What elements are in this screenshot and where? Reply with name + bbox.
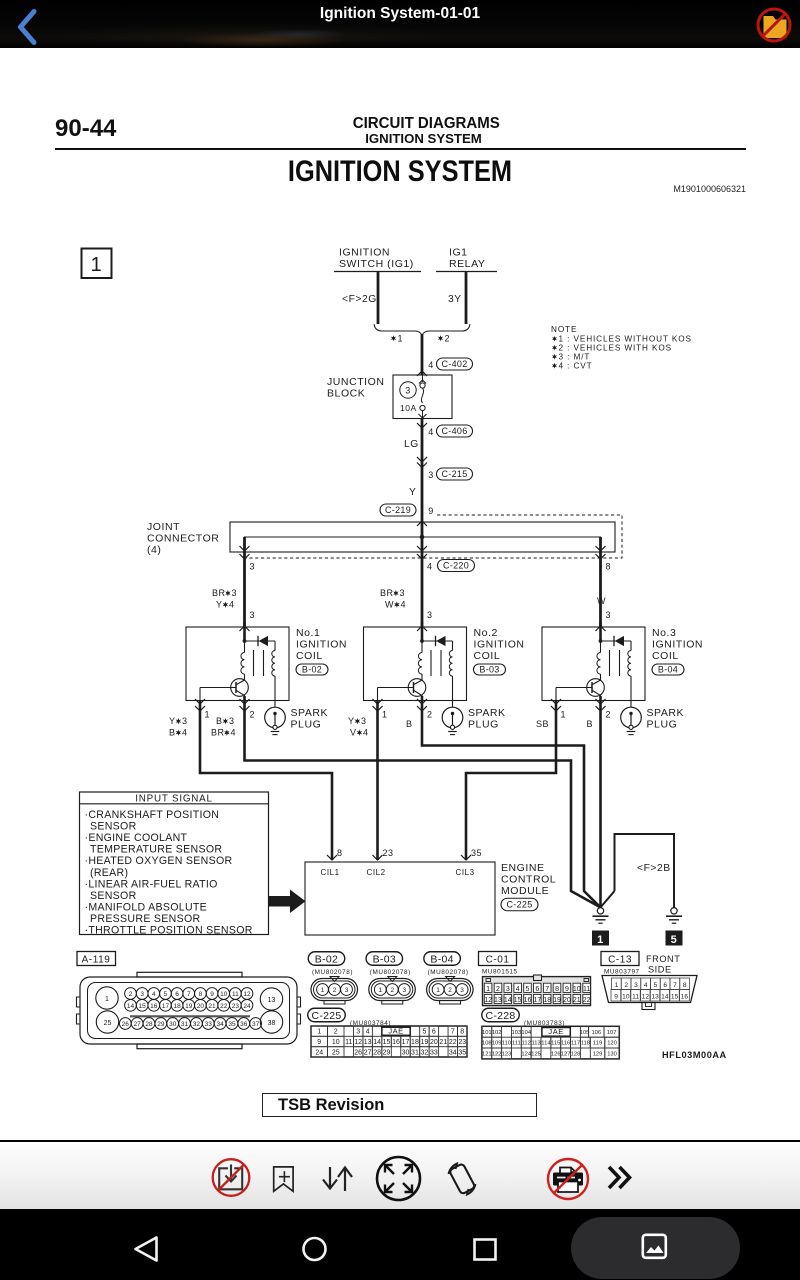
svg-text:32: 32 [193,1021,201,1028]
svg-text:1: 1 [91,254,103,276]
coil 2 pin 1 exit [373,699,383,704]
svg-text:109: 109 [492,1041,502,1047]
svg-text:126: 126 [551,1052,561,1058]
svg-text:·LINEAR AIR-FUEL RATIO: ·LINEAR AIR-FUEL RATIO [85,878,218,890]
TSB revision box [262,1093,537,1117]
diode coil 2 [422,640,453,642]
svg-text:3: 3 [361,716,367,726]
svg-text:(REAR): (REAR) [90,867,128,879]
svg-text:SPARK: SPARK [468,707,506,719]
wire coil2 pin1 to ECM pin 23 [376,700,379,860]
ECM pin 23 entry [373,855,383,860]
svg-text:3: 3 [402,987,406,994]
svg-text:4: 4 [229,600,235,610]
svg-text:4: 4 [427,562,433,572]
svg-text:Y: Y [216,600,223,610]
svg-text:3: 3 [140,991,144,998]
svg-text:31: 31 [411,1049,419,1056]
diagram number box 1 [82,249,112,279]
svg-text:4: 4 [231,728,237,738]
svg-text:12: 12 [642,994,650,1001]
svg-text:127: 127 [561,1052,571,1058]
svg-text:129: 129 [593,1052,603,1058]
svg-text:CIL2: CIL2 [367,868,386,877]
svg-text:B-02: B-02 [302,665,322,675]
page header [55,115,116,143]
svg-text:COIL: COIL [474,650,501,662]
svg-text:103: 103 [512,1030,522,1036]
svg-text:35: 35 [458,1049,466,1056]
wire continuation chevrons [417,457,427,462]
svg-text:22: 22 [449,1039,457,1046]
connector C-01 label [479,952,517,966]
svg-text:C-01: C-01 [486,955,510,966]
svg-text:2 : VEHICLES WITH KOS: 2 : VEHICLES WITH KOS [559,343,673,352]
svg-text:2: 2 [390,987,394,994]
svg-text:B-04: B-04 [430,953,453,965]
primary winding coil 2 [421,641,423,653]
arrow input signal to ECM [269,890,306,914]
ECM pin 8 entry [327,855,337,860]
svg-text:4: 4 [644,982,648,989]
svg-text:1: 1 [597,934,604,946]
svg-text:1 : VEHICLES WITHOUT KOS: 1 : VEHICLES WITHOUT KOS [559,334,692,343]
svg-text:1: 1 [317,1029,321,1036]
svg-text:·MANIFOLD ABSOLUTE: ·MANIFOLD ABSOLUTE [85,901,208,913]
svg-text:5: 5 [164,991,168,998]
svg-text:Y: Y [409,487,416,498]
ground point 5 [671,908,677,914]
svg-text:4: 4 [152,991,156,998]
svg-text:JAE: JAE [548,1027,563,1036]
svg-text:8: 8 [337,848,343,858]
svg-text:7: 7 [545,986,549,993]
svg-text:SENSOR: SENSOR [90,890,137,902]
svg-text:8: 8 [199,991,203,998]
svg-text:36: 36 [240,1021,248,1028]
wire coil3 pin1 to ECM pin 35 [466,700,556,860]
svg-text:10: 10 [332,1039,340,1046]
svg-text:28: 28 [373,1049,381,1056]
primary winding coil 3 [600,641,602,653]
svg-text:1: 1 [378,987,382,994]
svg-text:2: 2 [445,334,451,344]
svg-text:PLUG: PLUG [291,719,322,731]
svg-text:123: 123 [502,1052,512,1058]
svg-text:120: 120 [607,1041,617,1047]
svg-text:111: 111 [512,1041,521,1047]
svg-text:2: 2 [333,987,337,994]
svg-text:2: 2 [427,710,433,720]
toolbar scroll-direction icon [317,1160,355,1198]
svg-text:C-13: C-13 [608,955,632,966]
svg-text:105: 105 [580,1030,590,1036]
svg-text:18: 18 [411,1039,419,1046]
svg-text:31: 31 [181,1021,189,1028]
svg-text:4 : CVT: 4 : CVT [559,361,593,370]
toolbar no-print icon [546,1156,592,1202]
svg-text:4: 4 [182,728,188,738]
svg-text:14: 14 [127,1003,135,1010]
svg-text:114: 114 [541,1041,551,1047]
svg-text:IGNITION: IGNITION [652,639,703,651]
svg-text:COIL: COIL [296,650,323,662]
svg-text:IG1: IG1 [449,247,468,259]
engine control module box [305,862,495,935]
svg-text:9: 9 [317,1039,321,1046]
svg-text:9: 9 [614,994,618,1001]
toolbar bookmark-add icon [269,1162,301,1196]
svg-text:3: 3 [232,588,238,598]
input signal box [80,792,269,935]
svg-text:Y: Y [169,716,176,726]
svg-text:1: 1 [486,986,490,993]
svg-text:RELAY: RELAY [449,258,485,270]
svg-text:SB: SB [536,719,549,729]
A-119 cavity 13 [260,988,282,1010]
svg-text:2: 2 [448,987,452,994]
svg-text:20: 20 [563,997,571,1004]
app title [0,0,800,48]
bus exit wire pin 4 C-220 middle [421,521,424,627]
svg-text:BR: BR [211,728,225,738]
svg-text:15: 15 [671,994,679,1001]
svg-text:PRESSURE SENSOR: PRESSURE SENSOR [90,913,201,925]
svg-text:3: 3 [229,716,235,726]
connector B-02 label [308,952,345,966]
coil 1 pin 2 exit [240,699,250,704]
svg-text:ENGINE: ENGINE [501,862,545,874]
svg-text:B: B [587,719,594,729]
svg-text:SPARK: SPARK [647,707,685,719]
power transistor coil 3 [587,679,605,697]
svg-text:3: 3 [428,470,434,480]
svg-text:2: 2 [624,982,628,989]
svg-text:9: 9 [428,506,434,516]
svg-text:22: 22 [583,997,591,1004]
svg-text:C-402: C-402 [441,359,467,369]
svg-text:102: 102 [492,1030,502,1036]
svg-text:C-220: C-220 [443,561,469,571]
svg-text:4: 4 [366,1029,370,1036]
joint connector dashed outline [245,515,622,558]
svg-text:2: 2 [496,986,500,993]
svg-text:35: 35 [471,848,482,858]
secondary winding coil 3 [630,641,632,651]
svg-text:CIL1: CIL1 [321,868,340,877]
bus exit wire pin 8 right [599,537,602,627]
svg-text:119: 119 [593,1041,602,1047]
coil 1 internal wiring [243,622,246,641]
svg-text:10: 10 [220,991,228,998]
svg-text:16: 16 [150,1003,158,1010]
svg-text:107: 107 [607,1030,617,1036]
core coil 3 [609,650,611,676]
svg-text:INPUT SIGNAL: INPUT SIGNAL [135,794,212,805]
svg-text:W: W [597,596,606,606]
svg-text:112: 112 [522,1041,531,1047]
svg-text:1: 1 [382,710,388,720]
toolbar rotate icon [440,1158,484,1200]
svg-text:128: 128 [571,1052,581,1058]
connector C-228 pin table [482,1026,619,1059]
svg-text:(MU802078): (MU802078) [428,969,469,976]
svg-text:4: 4 [400,600,406,610]
nav recent-apps pill [571,1217,740,1279]
svg-text:(MU802078): (MU802078) [370,969,411,976]
spark plug coil 2 [442,707,463,728]
svg-text:3: 3 [405,386,411,396]
no-folder icon [753,4,797,48]
svg-text:28: 28 [145,1021,153,1028]
svg-text:7: 7 [451,1029,455,1036]
svg-text:13: 13 [651,994,659,1001]
wire <F>2B to grounds [615,834,675,908]
svg-text:12: 12 [243,991,251,998]
A-119 cavity 25 [96,1011,118,1033]
svg-text:3: 3 [460,987,464,994]
joint connector bus bar [245,537,601,552]
connector B-04 label [424,952,461,966]
svg-text:24: 24 [243,1003,251,1010]
svg-text:(MU802078): (MU802078) [312,969,353,976]
power transistor coil 1 [231,679,249,697]
svg-text:3Y: 3Y [448,294,462,305]
svg-text:IGNITION: IGNITION [474,639,525,651]
svg-text:4: 4 [428,427,434,437]
svg-text:C-406: C-406 [441,426,467,436]
svg-text:11: 11 [583,986,590,993]
svg-text:19: 19 [185,1003,193,1010]
C-225 row 3 cells [311,1047,328,1057]
svg-text:110: 110 [502,1041,511,1047]
svg-text:PLUG: PLUG [468,719,499,731]
svg-text:116: 116 [561,1041,570,1047]
C-228 row 2 cells [482,1037,492,1048]
svg-text:B: B [216,716,223,726]
wire from ignition switch <F>2G [377,272,380,324]
svg-text:108: 108 [482,1041,492,1047]
wire coil2 pin2 to ground [422,700,601,907]
toolbar [0,1140,800,1212]
svg-text:130: 130 [607,1052,617,1058]
svg-text:3: 3 [250,610,256,620]
svg-text:15: 15 [514,997,522,1004]
connector C-01 pin grid [483,977,591,1006]
No.1 ignition coil B-02 [186,627,289,701]
bus junction node [420,535,425,540]
svg-text:NOTE: NOTE [551,325,577,334]
svg-text:MU803797: MU803797 [604,969,640,976]
svg-text:10: 10 [622,994,630,1001]
svg-text:·ENGINE COOLANT: ·ENGINE COOLANT [85,832,188,844]
svg-text:8: 8 [555,986,559,993]
svg-text:27: 27 [134,1021,142,1028]
svg-text:1: 1 [436,987,440,994]
svg-text:1: 1 [615,982,619,989]
svg-text:B-02: B-02 [315,953,338,965]
A-119 key slot [130,1015,250,1017]
core coil 2 [430,650,432,676]
svg-text:5: 5 [654,982,658,989]
connector C-13 housing [602,976,697,1003]
svg-text:4: 4 [363,728,369,738]
joint connector bus box [230,522,615,552]
svg-text:SENSOR: SENSOR [90,821,137,833]
primary winding coil 1 [244,641,246,653]
svg-text:35: 35 [228,1021,236,1028]
back chevron [0,0,60,48]
svg-text:12: 12 [354,1039,362,1046]
svg-text:No.2: No.2 [474,627,498,639]
svg-text:37: 37 [252,1021,260,1028]
nav home circle [298,1232,332,1266]
C-225 row 2 cells [311,1036,328,1046]
svg-text:·CRANKSHAFT POSITION: ·CRANKSHAFT POSITION [85,809,220,821]
svg-text:2: 2 [334,1029,338,1036]
svg-text:121: 121 [482,1052,492,1058]
svg-text:FRONT: FRONT [646,954,680,964]
svg-text:24: 24 [315,1049,323,1056]
svg-text:23: 23 [232,1003,240,1010]
svg-text:7: 7 [673,982,677,989]
svg-text:20: 20 [197,1003,205,1010]
svg-text:2: 2 [606,710,612,720]
svg-text:3: 3 [506,986,510,993]
svg-text:JUNCTION: JUNCTION [327,376,384,388]
note *2 label [438,335,443,341]
svg-text:C-225: C-225 [506,900,532,910]
svg-text:19: 19 [553,997,561,1004]
svg-text:26: 26 [122,1021,130,1028]
svg-text:115: 115 [551,1041,560,1047]
svg-text:3: 3 [182,716,188,726]
ECM pin 35 entry [461,855,471,860]
spark plug coil 1 [265,707,286,728]
svg-text:11: 11 [232,991,239,998]
svg-text:SIDE: SIDE [648,965,672,975]
svg-text:C-219: C-219 [385,505,411,515]
A-119 cavities 2-12 [125,988,137,1000]
connector A-119 housing [80,977,297,1044]
svg-text:12: 12 [484,997,492,1004]
svg-text:11: 11 [345,1039,352,1046]
svg-text:33: 33 [430,1049,438,1056]
svg-text:No.1: No.1 [296,627,320,639]
svg-text:34: 34 [216,1021,224,1028]
svg-text:21: 21 [573,997,581,1004]
svg-text:30: 30 [402,1049,410,1056]
svg-text:1: 1 [561,710,567,720]
wire coil1 pin1 to ECM pin 8 [200,700,332,860]
A-119 cavities 26-37 [119,1018,131,1030]
connector B-04 housing [446,977,455,982]
connector C-219 pin 9 [380,504,416,516]
circuit schematic [0,210,800,1080]
svg-text:(4): (4) [147,544,161,556]
svg-text:W: W [385,600,394,610]
svg-text:117: 117 [571,1041,580,1047]
svg-text:15: 15 [383,1039,391,1046]
svg-text:6: 6 [432,1029,436,1036]
wire coil1 pin2 to ground [245,700,601,907]
svg-text:9: 9 [210,991,214,998]
svg-text:30: 30 [169,1021,177,1028]
No.2 ignition coil B-03 [364,627,467,701]
nav screenshot image icon [640,1233,670,1261]
power transistor coil 2 [408,679,426,697]
connector B-03 label [366,952,403,966]
svg-text:3: 3 [606,610,612,620]
svg-text:113: 113 [531,1041,540,1047]
svg-text:7: 7 [187,991,191,998]
svg-text:11: 11 [632,994,639,1001]
svg-text:B: B [169,728,176,738]
svg-text:19: 19 [421,1039,429,1046]
svg-text:C-225: C-225 [311,1010,341,1022]
A-119 cavity 1 [96,987,118,1009]
svg-text:IGNITION: IGNITION [339,247,390,259]
C-228 JAE box [542,1028,570,1037]
connector A-119 label [77,952,116,966]
nav back triangle [128,1231,166,1267]
svg-text:22: 22 [220,1003,228,1010]
svg-text:3: 3 [356,1029,360,1036]
bus exit wire pin 3 left [243,537,246,627]
secondary winding coil 1 [274,641,276,651]
connector B-02 housing [330,977,339,982]
svg-text:6: 6 [175,991,179,998]
A-119 cavity 38 [260,1011,282,1033]
app top bar [0,0,800,48]
svg-text:25: 25 [332,1049,340,1056]
coil 2 pin 2 exit [417,699,427,704]
svg-text:4: 4 [516,986,520,993]
svg-text:C-215: C-215 [441,469,467,479]
svg-text:BR: BR [212,588,226,598]
svg-text:14: 14 [373,1039,381,1046]
svg-text:No.3: No.3 [652,627,676,639]
secondary winding coil 2 [452,641,454,651]
svg-text:118: 118 [581,1041,590,1047]
svg-text:IGNITION: IGNITION [296,639,347,651]
coil 2 internal wiring [421,622,424,641]
svg-text:Y: Y [348,716,355,726]
svg-text:CIL3: CIL3 [456,868,475,877]
svg-text:2: 2 [129,991,133,998]
svg-text:17: 17 [162,1003,170,1010]
wire from IG1 relay 3Y [465,272,468,324]
svg-text:JAE: JAE [388,1027,403,1036]
svg-text:25: 25 [104,1020,112,1027]
android navigation bar [0,1209,800,1280]
svg-text:A-119: A-119 [82,955,111,966]
svg-text:·THROTTLE POSITION SENSOR: ·THROTTLE POSITION SENSOR [85,925,253,937]
svg-text:29: 29 [157,1021,165,1028]
note *1 label [391,335,396,341]
svg-text:3: 3 [250,562,256,572]
svg-text:13: 13 [494,997,502,1004]
svg-text:33: 33 [205,1021,213,1028]
svg-text:13: 13 [268,997,276,1004]
svg-text:29: 29 [383,1049,391,1056]
diode coil 3 [601,640,632,642]
svg-text:3: 3 [400,588,406,598]
svg-text:6: 6 [663,982,667,989]
svg-text:16: 16 [681,994,689,1001]
svg-text:LG: LG [404,439,419,450]
svg-text:8: 8 [683,982,687,989]
